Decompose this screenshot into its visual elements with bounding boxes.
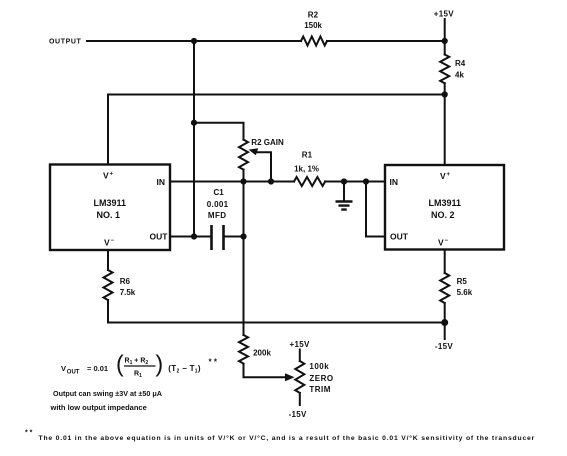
svg-text:* *: * *: [25, 430, 33, 437]
junction gain node: [191, 120, 197, 126]
resistor R6: [104, 270, 113, 300]
resistor R2: [301, 37, 327, 46]
junction C1 right: [240, 233, 246, 239]
svg-text:R1: R1: [302, 150, 313, 159]
svg-text:ZERO: ZERO: [309, 374, 333, 383]
svg-text:NO. 1: NO. 1: [97, 210, 121, 220]
potentiometer R2 GAIN: [239, 140, 248, 170]
wire R4 node down to U2 V+: [444, 95, 446, 166]
svg-text:-15V: -15V: [435, 342, 453, 351]
junction R4 bottom: [442, 91, 448, 97]
wire V+ rail down to U1: [107, 95, 109, 165]
svg-text:-15V: -15V: [289, 410, 307, 419]
svg-text:7.5k: 7.5k: [120, 288, 136, 297]
wire pot bottom to IN rail: [243, 170, 245, 182]
junction wiper: [268, 178, 274, 184]
wire horizontal V+ rail: [108, 94, 445, 96]
wire +15V stub: [444, 19, 446, 41]
svg-text:R4: R4: [455, 59, 466, 68]
svg-text:OUT: OUT: [67, 370, 80, 376]
svg-text:OUT: OUT: [390, 232, 409, 242]
wire R4 bottom to node: [444, 83, 446, 94]
svg-text:OUTPUT: OUTPUT: [49, 39, 81, 46]
svg-text:5.6k: 5.6k: [457, 288, 473, 297]
wire U1 V- to R6: [107, 250, 109, 270]
svg-text:−: −: [445, 238, 449, 244]
svg-text:Output can swing ±3V at ±50 μA: Output can swing ±3V at ±50 μA: [53, 389, 162, 398]
wire vertical from OUTPUT line down to OUT junction: [193, 41, 195, 237]
wire -15V rail: [108, 322, 445, 324]
junction -15V node: [441, 319, 448, 326]
svg-text:R6: R6: [120, 277, 131, 286]
svg-text:V: V: [440, 171, 446, 181]
wire U1 IN to R1: [170, 181, 294, 183]
wire 200k bottom to trim arrow: [244, 364, 287, 378]
svg-text:V: V: [104, 238, 110, 248]
resistor R4: [440, 55, 449, 84]
svg-text:200k: 200k: [253, 348, 271, 357]
junction pot bottom: [240, 178, 246, 184]
capacitor C1: [212, 225, 224, 250]
svg-text:+15V: +15V: [434, 10, 454, 19]
op-amp U2 LM3911 NO.2: [385, 165, 504, 250]
junction feedback node: [363, 178, 369, 184]
svg-text:V: V: [103, 171, 109, 181]
wire U1 OUT to C1: [170, 236, 210, 238]
wire +15V node to R4: [444, 41, 446, 55]
svg-text:V: V: [61, 364, 66, 373]
equation VOUT: [61, 351, 218, 380]
svg-text:IN: IN: [390, 177, 399, 187]
svg-text:0.001: 0.001: [207, 200, 229, 209]
svg-text:+: +: [110, 172, 114, 178]
junction +15V node: [442, 38, 448, 44]
wire pot bottom lead: [299, 393, 301, 405]
wire R6 bottom to -15V rail: [107, 300, 109, 323]
resistor R5: [440, 273, 449, 303]
svg-text:100k: 100k: [309, 362, 329, 371]
svg-text:150k: 150k: [304, 21, 322, 30]
wire C1 right to node: [225, 236, 244, 238]
wire gain node to pot top: [194, 123, 244, 140]
svg-text:R2 GAIN: R2 GAIN: [251, 138, 284, 147]
resistor 200k: [239, 335, 248, 364]
svg-text:+15V: +15V: [290, 340, 310, 349]
svg-text:4k: 4k: [455, 71, 464, 80]
svg-text:1k, 1%: 1k, 1%: [294, 164, 319, 173]
svg-text:R2: R2: [308, 10, 319, 19]
wiper arrow ZERO TRIM: [285, 373, 295, 381]
svg-text:R5: R5: [457, 277, 468, 286]
wire feedback from IN node down to U2 OUT: [366, 182, 385, 237]
wire OUTPUT to R2: [87, 40, 301, 42]
svg-text:with low output impedance: with low output impedance: [50, 403, 147, 412]
junction ground node: [341, 178, 347, 184]
svg-text:TRIM: TRIM: [309, 385, 331, 394]
wire R5 bottom to rail: [444, 303, 446, 323]
wire node down to 200k: [243, 182, 245, 336]
svg-text:V: V: [438, 238, 444, 248]
svg-text:LM3911: LM3911: [94, 198, 127, 208]
svg-text:LM3911: LM3911: [429, 198, 462, 208]
wire R2 to +15V node: [327, 40, 445, 42]
svg-text:The 0.01 in the above equation: The 0.01 in the above equation is in uni…: [39, 434, 536, 442]
svg-text:(: (: [116, 351, 124, 377]
svg-text:+: +: [447, 172, 451, 178]
wire pot top lead: [299, 350, 301, 362]
svg-text:* *: * *: [209, 358, 218, 367]
svg-text:C1: C1: [214, 188, 225, 197]
op-amp U1 LM3911 NO.1: [50, 165, 170, 251]
wiper arrow R2 GAIN: [249, 148, 259, 155]
svg-text:IN: IN: [157, 177, 166, 187]
junction at output/vertical: [191, 38, 197, 44]
svg-text:= 0.01: = 0.01: [87, 364, 108, 373]
svg-text:NO. 2: NO. 2: [431, 210, 455, 220]
ground: [343, 182, 345, 201]
junction OUT node: [191, 233, 197, 239]
svg-text:): ): [156, 351, 164, 377]
svg-text:−: −: [111, 238, 115, 244]
svg-text:MFD: MFD: [208, 211, 227, 220]
wire R1 to ground node: [325, 181, 385, 183]
svg-text:OUT: OUT: [150, 232, 169, 242]
potentiometer 100k ZERO TRIM: [295, 361, 304, 393]
wire U2 V- to R5: [444, 250, 446, 274]
wire -15V stub: [444, 323, 446, 340]
resistor R1: [294, 177, 325, 186]
